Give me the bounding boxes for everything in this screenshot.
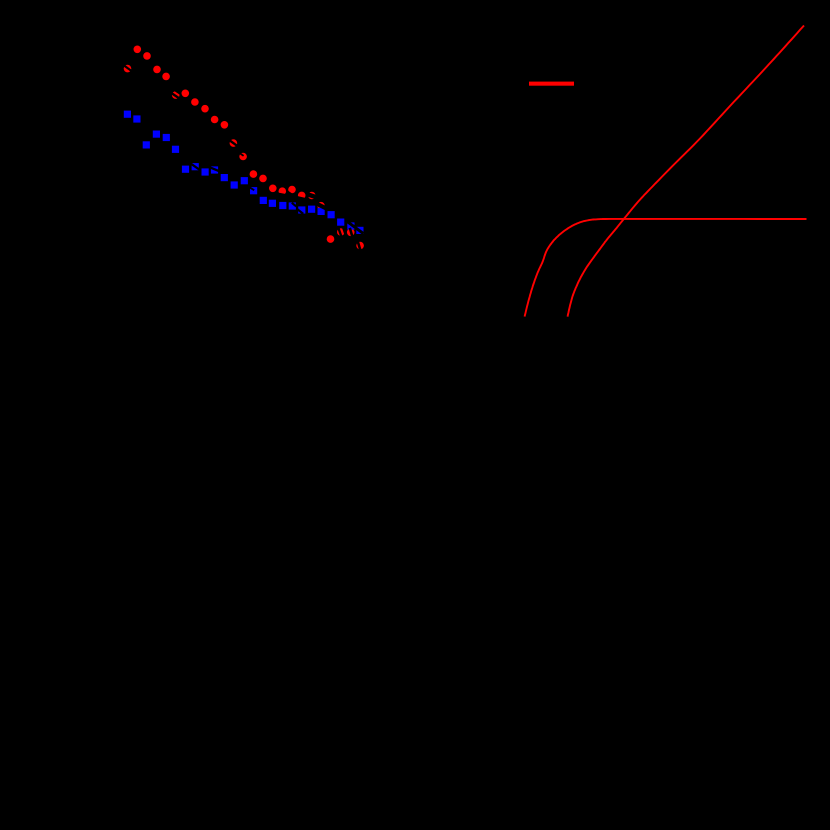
left panel: blue square series xyxy=(124,111,364,234)
left panel: red circle series xyxy=(124,46,364,250)
black dashed fit-line fragments over blue squares xyxy=(190,163,363,233)
right panel: rising red curve (bends into straight diagonal) xyxy=(568,26,805,317)
right panel: legend sample line xyxy=(529,82,574,86)
black dashed fit-line fragments over red circles xyxy=(122,64,360,250)
right panel: saturating red curve xyxy=(525,219,807,317)
